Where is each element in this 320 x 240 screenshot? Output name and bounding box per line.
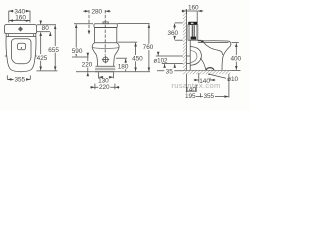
svg-text:355: 355: [14, 77, 25, 84]
svg-text:425: 425: [37, 55, 48, 62]
plan side ticks: [5, 55, 7, 57]
svg-text:160: 160: [15, 15, 26, 22]
dim phi102: [156, 52, 190, 67]
svg-text:655: 655: [48, 47, 59, 54]
svg-text:180: 180: [118, 64, 129, 71]
side cistern body: [188, 25, 198, 41]
side cistern button (black): [188, 22, 197, 25]
svg-text:760: 760: [143, 44, 154, 51]
dim 655: [54, 25, 56, 70]
front plinth: [95, 66, 116, 72]
dim 760 right: [115, 24, 150, 72]
side cistern inner walls: [190, 25, 197, 41]
floor line + hatch: [183, 69, 241, 71]
dim 450 right: [118, 42, 138, 71]
svg-text:450: 450: [132, 56, 143, 63]
plan bottom extension: [37, 70, 58, 72]
dim 400 right (side): [232, 43, 239, 70]
plan hinge line: [6, 36, 36, 38]
dim 130 bottom: [98, 72, 113, 78]
side bowl cavity line: [204, 42, 223, 55]
plan cistern: [5, 25, 37, 34]
side bowl front: [222, 47, 229, 70]
dim 80 right of plan: [37, 21, 56, 36]
svg-text:160: 160: [188, 5, 199, 12]
svg-text:590: 590: [72, 48, 83, 55]
front cistern lid: [94, 24, 117, 28]
svg-text:220: 220: [99, 84, 110, 91]
side flush valve section: [191, 25, 196, 39]
side outlet arch: [206, 68, 214, 71]
svg-text:rusantex.com: rusantex.com: [171, 81, 220, 90]
plan hinge bolts: [8, 34, 33, 37]
plan sump: [18, 43, 26, 50]
dim 425: [40, 32, 42, 70]
front cistern body: [95, 28, 117, 43]
svg-text:ø102: ø102: [153, 57, 168, 64]
dim 340 top: [9, 11, 30, 22]
side trap curves: [190, 47, 201, 66]
label phi10 leader: [209, 74, 226, 78]
svg-text:80: 80: [42, 25, 50, 32]
side foot back curve: [200, 58, 206, 71]
svg-text:195: 195: [185, 93, 196, 100]
side pedestal back: [189, 40, 191, 70]
wall line below floor: [185, 74, 187, 99]
dim 35: [157, 70, 183, 72]
svg-text:35: 35: [166, 68, 174, 75]
dim 220 left: [76, 53, 95, 76]
front inlet circle: [102, 56, 109, 63]
front rim lower edge: [92, 47, 119, 50]
front bowl/pedestal outline: [92, 43, 119, 67]
plan crosshair: [18, 27, 23, 32]
side seat hinge step: [198, 39, 201, 42]
dim 195 355 bottom (side): [187, 74, 229, 98]
side seat line 2: [198, 41, 229, 43]
dim 590 left: [72, 24, 93, 57]
svg-text:355: 355: [203, 93, 214, 100]
dim 160 top: [9, 20, 30, 22]
dim 180 right: [116, 58, 127, 71]
svg-text:220: 220: [82, 62, 93, 69]
wall hatch: [183, 9, 186, 71]
dim 220 bottom: [90, 84, 119, 90]
svg-text:280: 280: [91, 9, 102, 16]
front cistern button: [103, 22, 108, 24]
dim 280 top: [83, 10, 110, 56]
svg-text:360: 360: [167, 30, 178, 37]
wall line: [185, 9, 187, 71]
dim 355 bottom: [7, 75, 30, 79]
side seat top: [198, 41, 231, 47]
plan bowl outline: [6, 34, 36, 72]
dim 140 A (outlet): [194, 73, 216, 83]
dim 140 B: [186, 85, 196, 92]
dim 360 left (side): [175, 23, 183, 40]
dim 160 top (side): [182, 10, 204, 24]
plan seat ring: [11, 39, 31, 64]
svg-text:400: 400: [230, 56, 241, 63]
